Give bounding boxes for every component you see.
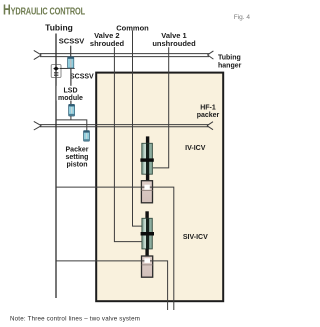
svg-text:SCSSV: SCSSV: [59, 36, 84, 45]
wire Common control line: [133, 31, 143, 227]
svg-text:Tubing: Tubing: [45, 22, 73, 32]
packer setting piston component (cyan): [84, 131, 90, 142]
valve IV-ICV piston indicator (white): [144, 185, 149, 190]
svg-text:module: module: [58, 95, 83, 102]
valve SIV-ICV cylinder: [142, 218, 152, 249]
svg-text:Tubing: Tubing: [218, 55, 241, 62]
LSD module component (cyan): [69, 104, 75, 116]
valve SIV-ICV lower stem: [145, 249, 148, 256]
svg-text:piston: piston: [67, 162, 88, 169]
wellbore tan box: [96, 73, 223, 302]
label LSD module: [57, 86, 86, 102]
SCSSV safety valve (cyan): [68, 57, 74, 68]
valve IV-ICV upper stem: [146, 136, 149, 144]
SCSSV hydraulic control module box: [51, 65, 61, 78]
tubing hanger double line: [34, 50, 214, 59]
svg-text:hanger: hanger: [218, 63, 242, 70]
valve SIV-ICV piston housing (pink): [142, 256, 153, 277]
svg-text:Packer: Packer: [66, 147, 89, 154]
valve IV-ICV cross band: [140, 158, 153, 161]
valve SIV-ICV piston indicator (white): [144, 258, 150, 263]
wire SCSSV drop line: [70, 46, 72, 57]
svg-text:setting: setting: [66, 154, 89, 161]
svg-text:SIV-ICV: SIV-ICV: [183, 234, 208, 241]
wire LSD module jog to packer setting piston: [56, 116, 87, 131]
svg-text:HYDRAULIC CONTROL: HYDRAULIC CONTROL: [3, 1, 86, 18]
wire Valve 1 control line: [153, 47, 169, 168]
svg-text:shrouded: shrouded: [90, 39, 125, 48]
valve SIV-ICV upper stem: [145, 211, 148, 219]
svg-text:HF-1: HF-1: [200, 105, 216, 112]
wire balance line to IV-ICV piston (y=187): [56, 187, 174, 310]
svg-text:Fig. 4: Fig. 4: [234, 14, 250, 21]
wire balance line to SIV-ICV piston (y=261): [56, 261, 168, 310]
wire tubing control line (x=56): [55, 34, 57, 299]
svg-text:SCSSV: SCSSV: [70, 74, 94, 81]
svg-text:packer: packer: [197, 112, 220, 119]
title HYDRAULIC CONTROL: [3, 1, 86, 18]
svg-text:Note: Three control lines – tw: Note: Three control lines – two valve sy…: [10, 316, 140, 323]
svg-text:IV-ICV: IV-ICV: [185, 145, 206, 152]
valve IV-ICV piston housing (pink): [141, 181, 152, 203]
wire Valve 2 control line: [114, 47, 141, 242]
svg-text:LSD: LSD: [64, 88, 78, 95]
wire module output to SCSSV valve: [60, 67, 75, 69]
svg-text:unshrouded: unshrouded: [152, 39, 196, 48]
valve IV-ICV cylinder: [142, 143, 153, 174]
wire SCSSV valve to LSD module: [70, 68, 72, 104]
valve SIV-ICV cross band: [141, 232, 154, 236]
HF-1 packer double line: [34, 121, 213, 130]
valve IV-ICV lower stem: [146, 174, 149, 181]
